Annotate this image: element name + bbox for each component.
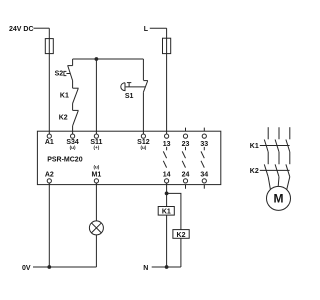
node 14 branch junction (165, 192, 169, 196)
wire K2 to S34 (72, 126, 74, 134)
contact 13-14 internal (163, 147, 166, 168)
wire K1 to N (166, 215, 168, 267)
wire branch to K2 (167, 193, 181, 229)
wire S1 branch drop (142, 59, 144, 80)
wire phase L1 top (267, 127, 269, 139)
svg-text:N: N (143, 265, 148, 272)
terminal 23 (185, 128, 187, 132)
fuse F1 (45, 39, 53, 54)
terminal S12 (141, 134, 145, 138)
svg-text:(u): (u) (140, 145, 146, 150)
svg-text:K2: K2 (250, 168, 259, 175)
relay box PSR-MC20 (37, 131, 220, 184)
wire S2 branch drop (72, 59, 74, 66)
terminal 13 (165, 134, 169, 138)
wire 14 down (166, 183, 168, 193)
wire phase L1 mid (267, 152, 269, 164)
fuse F2 (163, 38, 171, 53)
wire phase L3 mid (289, 152, 291, 164)
contact K2 (NC feedback) (73, 110, 79, 125)
wire L vertical to 13 (166, 28, 168, 134)
wire top rail (73, 58, 144, 60)
svg-text:K1: K1 (162, 209, 171, 216)
svg-text:A2: A2 (45, 172, 54, 179)
contact K1 (NC feedback) (73, 88, 79, 103)
svg-text:K2: K2 (177, 232, 186, 239)
svg-text:(u): (u) (93, 164, 99, 169)
svg-text:0V: 0V (22, 265, 31, 272)
contact S2 (NC, e-stop) (64, 66, 73, 81)
wire to K1 coil (166, 193, 168, 206)
motor M (267, 186, 291, 210)
terminal A1 (47, 134, 51, 138)
wire M1 to lamp (95, 183, 97, 221)
lamp H1 (89, 221, 103, 235)
wire motor lead L3 (287, 177, 290, 190)
svg-text:K1: K1 (250, 143, 259, 150)
rail N (152, 266, 181, 268)
wire 24V vertical to A1 (48, 28, 50, 134)
terminal S34 (71, 134, 75, 138)
coil K1 (158, 207, 174, 216)
svg-text:K2: K2 (59, 115, 68, 122)
svg-text:34: 34 (200, 172, 208, 179)
node K1/N junction (165, 265, 169, 269)
wire phase L2 mid (278, 152, 280, 164)
svg-text:S2: S2 (55, 70, 64, 77)
wire K1 to K2 (72, 103, 74, 110)
svg-text:S1: S1 (125, 93, 134, 100)
contact 33-34 internal (201, 147, 204, 168)
wire lamp to 0V (95, 235, 97, 267)
contact K1 main (3-pole) (260, 140, 290, 152)
terminal 33 (203, 128, 205, 132)
node A2/0V junction (47, 265, 51, 269)
svg-text:L: L (144, 26, 149, 33)
contact S1 (start button) (121, 81, 148, 93)
wire phase L3 top (289, 127, 291, 139)
terminal S11 (94, 134, 98, 138)
svg-text:14: 14 (163, 172, 171, 179)
svg-text:24V DC: 24V DC (9, 26, 34, 33)
node S11 junction (95, 57, 99, 61)
wire S2 to K1 (72, 81, 74, 89)
wire S11 riser (95, 59, 97, 134)
svg-text:24: 24 (182, 172, 190, 179)
svg-text:PSR-MC20: PSR-MC20 (47, 157, 83, 164)
contact K2 main (3-pole) (260, 164, 290, 176)
wire K2 to N (180, 238, 182, 267)
wire S1 to S12 (142, 92, 144, 134)
rail 0V (33, 266, 96, 268)
svg-text:A1: A1 (45, 139, 54, 146)
svg-text:M1: M1 (92, 172, 102, 179)
wire 24V feed horizontal (34, 27, 50, 29)
svg-text:(u): (u) (70, 145, 76, 150)
wire motor lead L1 (268, 177, 270, 190)
contact 23-24 internal (182, 147, 185, 168)
svg-text:(+): (+) (94, 145, 100, 150)
svg-text:M: M (274, 192, 284, 206)
svg-text:K1: K1 (60, 92, 69, 99)
wire motor lead L2 (277, 177, 280, 187)
coil K2 (173, 230, 189, 239)
wire A2 down (48, 183, 50, 267)
wire L horizontal (150, 27, 167, 29)
wire phase L2 top (278, 127, 280, 139)
